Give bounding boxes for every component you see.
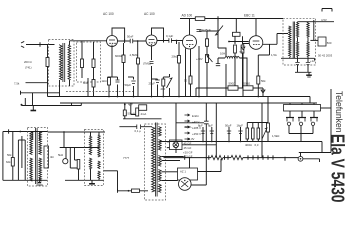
svg-text:500Ω: 500Ω xyxy=(244,82,251,86)
svg-text:4,5MΩ: 4,5MΩ xyxy=(130,53,138,57)
svg-text:10H: 10H xyxy=(220,52,225,56)
svg-text:Telefunken: Telefunken xyxy=(334,91,344,133)
svg-text:+12: +12 xyxy=(310,59,315,63)
svg-text:45 GF: 45 GF xyxy=(184,146,192,150)
svg-text:8µF: 8µF xyxy=(208,124,213,128)
svg-text:Entbr.: Entbr. xyxy=(192,114,200,118)
svg-text:7,5k: 7,5k xyxy=(14,82,20,86)
svg-text:600Ω: 600Ω xyxy=(115,54,122,58)
svg-text:0,1µF: 0,1µF xyxy=(166,34,173,38)
svg-text:62k: 62k xyxy=(6,160,11,164)
svg-text:M46: M46 xyxy=(83,81,89,85)
svg-text:(7MΩ): (7MΩ) xyxy=(143,62,151,66)
svg-text:500Ω: 500Ω xyxy=(229,82,236,86)
svg-text:50k: 50k xyxy=(261,79,266,83)
svg-text:4mA: 4mA xyxy=(141,112,147,116)
svg-text:500: 500 xyxy=(327,41,332,45)
svg-text:50·42 2003: 50·42 2003 xyxy=(318,54,333,58)
svg-text:50nF: 50nF xyxy=(127,35,134,39)
svg-text:4,5V: 4,5V xyxy=(321,18,327,22)
svg-text:25µF: 25µF xyxy=(149,82,156,86)
svg-text:EBC 11: EBC 11 xyxy=(244,14,255,18)
svg-text:7777: 7777 xyxy=(123,156,130,160)
svg-text:4µF: 4µF xyxy=(128,103,133,107)
svg-text:AD 100: AD 100 xyxy=(182,14,193,18)
svg-text:AC 100: AC 100 xyxy=(103,12,114,16)
svg-text:50k: 50k xyxy=(7,153,12,157)
svg-text:50mA: 50mA xyxy=(128,112,135,116)
svg-text:1,5A: 1,5A xyxy=(271,53,277,57)
svg-text:16µF: 16µF xyxy=(237,124,244,128)
svg-text:5kΩ: 5kΩ xyxy=(58,153,63,157)
svg-text:Ela V 5430: Ela V 5430 xyxy=(328,134,348,203)
svg-text:400Ω: 400Ω xyxy=(245,143,252,147)
svg-text:+40 V: +40 V xyxy=(192,120,200,124)
svg-text:50µF: 50µF xyxy=(225,124,232,128)
svg-text:4Ω: 4Ω xyxy=(50,155,54,159)
svg-text:20kΩ: 20kΩ xyxy=(172,55,179,59)
svg-text:AZ 1: AZ 1 xyxy=(180,170,186,174)
svg-text:(741): (741) xyxy=(25,66,32,70)
svg-text:6,3: 6,3 xyxy=(255,143,259,147)
svg-text:50µ: 50µ xyxy=(240,50,245,54)
svg-text:0,25µF: 0,25µF xyxy=(202,28,211,32)
svg-text:+285 V: +285 V xyxy=(192,126,201,130)
svg-text:200: 200 xyxy=(161,87,166,91)
svg-text:+40V: +40V xyxy=(196,57,203,61)
svg-text:50µF: 50µF xyxy=(125,83,132,87)
svg-text:+250 V: +250 V xyxy=(192,132,201,136)
svg-text:1kΩ: 1kΩ xyxy=(102,79,107,83)
svg-text:50: 50 xyxy=(184,79,188,83)
svg-text:AC 100: AC 100 xyxy=(144,12,155,16)
svg-text:200 Ω: 200 Ω xyxy=(24,60,32,64)
svg-text:1,5kΩ: 1,5kΩ xyxy=(272,134,279,138)
svg-text:0,1 µ: 0,1 µ xyxy=(135,129,142,133)
